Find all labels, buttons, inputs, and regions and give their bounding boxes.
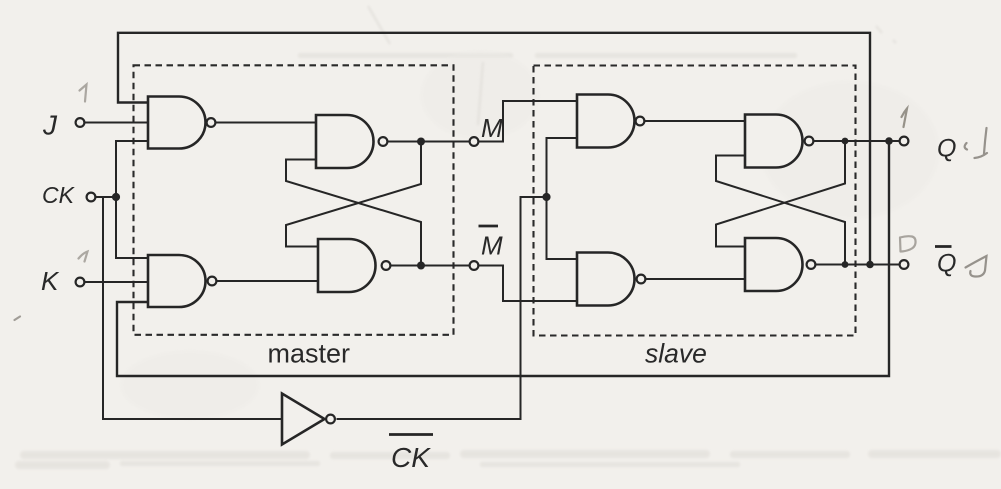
svg-text:slave: slave (645, 339, 707, 369)
svg-text:J: J (42, 110, 58, 141)
svg-text:CK: CK (42, 182, 76, 208)
svg-text:M: M (481, 231, 503, 261)
svg-text:CK: CK (391, 442, 431, 473)
svg-text:K: K (41, 266, 60, 296)
svg-text:Q: Q (937, 135, 956, 163)
svg-text:Q: Q (937, 250, 956, 278)
svg-text:master: master (268, 339, 351, 369)
svg-text:M: M (481, 113, 503, 143)
